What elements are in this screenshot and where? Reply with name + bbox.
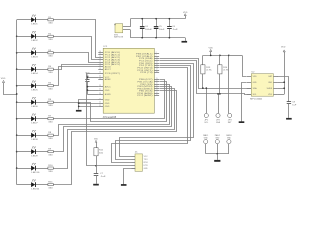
LED LED5 <box>31 83 35 88</box>
svg-text:R1: R1 <box>48 17 51 19</box>
svg-text:LED7: LED7 <box>31 122 38 124</box>
wire : spiral route J1 pin2 <box>116 66 191 160</box>
svg-text:22: 22 <box>99 105 101 107</box>
LED LED10 <box>31 166 35 171</box>
wire : bus to LED7 <box>17 118 32 120</box>
svg-text:GND: GND <box>105 103 110 105</box>
capacitor C4 100uF <box>142 19 144 27</box>
svg-text:R2: R2 <box>48 33 51 35</box>
wire : bus to LED8 <box>17 135 32 137</box>
svg-text:J1: J1 <box>135 151 138 153</box>
LED LED11 <box>31 182 35 187</box>
svg-text:12: 12 <box>156 66 158 68</box>
wire : VDD to bus <box>4 83 17 95</box>
resistor R10 <box>48 167 53 169</box>
ground (IC2 left) <box>239 121 245 123</box>
svg-text:23: 23 <box>99 93 101 95</box>
svg-text:LED4: LED4 <box>31 73 38 75</box>
LED LED2 <box>31 34 35 39</box>
svg-text:10k: 10k <box>99 152 103 154</box>
wire : IC1 GND pins bundle <box>79 100 99 110</box>
wire : bus to LED6 <box>17 102 32 104</box>
wire : JP1 lead to SCL <box>206 88 208 113</box>
wire : ground rail (bottom) <box>130 37 185 39</box>
capacitor C8 1uF <box>287 101 291 103</box>
resistor R11 <box>48 184 53 186</box>
LED LED3 <box>31 50 35 55</box>
wire : LED anode bus (VDD) <box>16 20 18 185</box>
svg-text:R9: R9 <box>48 149 51 151</box>
wire : LED7 to R7 <box>36 118 48 120</box>
svg-text:JP1: JP1 <box>204 120 208 122</box>
wire : PAD3 lead <box>228 144 230 154</box>
svg-text:JP3: JP3 <box>228 120 232 122</box>
wire : pullup/VDD rail <box>203 55 229 57</box>
svg-text:4.7k: 4.7k <box>223 70 229 72</box>
wire : LED8 net <box>54 85 170 136</box>
svg-text:AVCC: AVCC <box>105 85 112 88</box>
wire : LED1 to R1 <box>36 19 48 21</box>
wire : IC2 VDD pins tie <box>278 82 284 84</box>
capacitor C6 .1uF <box>169 19 171 27</box>
wire : LED6 to R6 <box>36 102 48 104</box>
svg-text:330: 330 <box>48 171 52 173</box>
svg-text:R6: R6 <box>48 99 51 101</box>
wire : PAD2 lead <box>217 144 219 154</box>
svg-text:BT1: BT1 <box>114 34 118 36</box>
IC1 right pin stubs and pin names <box>154 53 159 55</box>
wire : J1 GND pin to ground <box>124 169 136 185</box>
wire : VDD rail (top) <box>130 18 185 20</box>
LED LED1 <box>31 17 35 22</box>
svg-text:ADC7: ADC7 <box>105 68 111 71</box>
svg-text:12: 12 <box>156 85 158 87</box>
svg-text:LED5: LED5 <box>31 89 38 91</box>
svg-text:SCL: SCL <box>204 122 208 124</box>
svg-text:22: 22 <box>99 98 101 100</box>
wire : C7 to ground <box>96 175 98 184</box>
ground (battery rail) <box>182 41 188 43</box>
svg-text:12: 12 <box>156 87 158 89</box>
svg-text:330: 330 <box>48 89 52 91</box>
wire : spiral route J1 pin3 <box>112 68 188 163</box>
svg-text:11: 11 <box>156 62 158 64</box>
wire : LED3 net to IC1 <box>54 53 99 63</box>
svg-text:20: 20 <box>99 51 101 53</box>
wire : bus to LED5 <box>17 85 32 87</box>
connector J1 header <box>135 154 142 171</box>
svg-text:20: 20 <box>99 53 101 55</box>
svg-text:330: 330 <box>48 154 52 156</box>
svg-text:22: 22 <box>99 76 101 78</box>
svg-text:LED11: LED11 <box>31 188 40 190</box>
svg-text:C4: C4 <box>145 26 148 28</box>
LED LED6 <box>31 100 35 105</box>
jumper pad JP2 <box>216 113 220 117</box>
wire : rail to ground symbol <box>185 38 187 41</box>
svg-text:R4: R4 <box>48 66 51 68</box>
svg-text:INT: INT <box>228 122 232 124</box>
svg-text:U2: U2 <box>252 71 255 73</box>
svg-text:R13: R13 <box>206 67 210 69</box>
svg-text:R10: R10 <box>48 165 52 167</box>
svg-text:12: 12 <box>156 94 158 96</box>
wire : LED5 to R5 <box>36 85 48 87</box>
svg-text:22: 22 <box>99 102 101 104</box>
power symbol VDD (IC2) <box>284 52 286 94</box>
svg-text:R5: R5 <box>48 83 51 85</box>
wire : VDD to VCC pin <box>87 77 89 80</box>
wire : cap to AVCC/GND pins <box>87 81 89 94</box>
svg-text:23: 23 <box>99 66 101 68</box>
wire : VDD rail to IC2 SHDN <box>229 55 242 57</box>
svg-text:22: 22 <box>99 89 101 91</box>
wire : C8 to ground <box>288 104 290 118</box>
wire : SDA net from IC1 to IC2 <box>160 61 252 95</box>
svg-text:20: 20 <box>99 72 101 74</box>
wire : LED11 net <box>54 91 177 185</box>
wire : LED1 net to IC1 <box>54 20 99 58</box>
wire : bus to LED3 <box>17 52 32 54</box>
wire : LED4 to R4 <box>36 69 48 71</box>
wire : bus to LED10 <box>17 168 32 170</box>
wire : battery - to ground rail <box>123 29 131 31</box>
wire : LED2 to R2 <box>36 36 48 38</box>
resistor R5 <box>48 85 53 87</box>
svg-text:11: 11 <box>156 59 158 61</box>
wire : SCL net from IC1 to IC2 <box>160 59 252 89</box>
wire : VDD to R12 <box>96 142 98 148</box>
svg-text:AGND: AGND <box>105 93 112 96</box>
svg-text:VDD: VDD <box>1 78 6 80</box>
svg-text:10: 10 <box>156 83 158 85</box>
wire : IC2 GND pin to ground <box>242 83 247 122</box>
svg-text:SHDN: SHDN <box>267 88 273 90</box>
svg-text:330: 330 <box>48 23 52 25</box>
svg-text:GND: GND <box>105 100 110 102</box>
wire : LED10 to R10 <box>36 168 48 170</box>
svg-text:20: 20 <box>99 56 101 58</box>
wire : bus to LED4 <box>17 69 32 71</box>
resistor R7 <box>48 118 53 120</box>
svg-text:330: 330 <box>48 39 52 41</box>
svg-text:10uF: 10uF <box>159 29 164 31</box>
svg-text:.1uF: .1uF <box>172 29 177 31</box>
ground (reset cap) <box>93 184 99 186</box>
wire : LED2 net to IC1 <box>54 37 99 60</box>
power symbol VDD (battery rail) <box>185 16 187 19</box>
wire : LED8 to R8 <box>36 135 48 137</box>
wire : spiral route J1 pin1 <box>120 64 194 157</box>
svg-text:11: 11 <box>156 64 158 66</box>
wire : LED10 net <box>54 89 175 169</box>
svg-text:C6: C6 <box>172 26 175 28</box>
wire : pad bus <box>206 153 229 155</box>
svg-text:.1uF: .1uF <box>100 176 105 178</box>
svg-text:LED2: LED2 <box>31 40 38 42</box>
resistor R8 <box>48 134 53 136</box>
wire : LED4 net to IC1 <box>54 65 99 70</box>
wire : VDD rail to JP3 pad <box>228 56 230 114</box>
ground (C8) <box>286 118 292 120</box>
resistor R12 10k (reset pullup) <box>94 148 98 156</box>
svg-text:R7: R7 <box>48 116 51 118</box>
capacitor C2 (decoupling) <box>85 79 89 81</box>
svg-text:LED9: LED9 <box>31 155 38 157</box>
wire : PAD1 lead <box>205 144 207 154</box>
wire : LED5 net to IC1 <box>54 67 99 86</box>
LED LED7 <box>31 116 35 121</box>
svg-text:LED1: LED1 <box>31 24 38 26</box>
ground (IC1 GND pins) <box>76 110 82 112</box>
svg-text:20: 20 <box>99 63 101 65</box>
svg-text:PD4 (T0): PD4 (T0) <box>140 72 153 74</box>
svg-text:JP2: JP2 <box>216 120 220 122</box>
resistor R2 <box>48 35 53 37</box>
wire : battery + to rail <box>123 26 131 28</box>
capacitor C5 10uF <box>156 19 158 27</box>
wire : LED9 to R9 <box>36 151 48 153</box>
svg-text:PC6 (/RST): PC6 (/RST) <box>105 73 121 75</box>
svg-text:12: 12 <box>156 80 158 82</box>
resistor R1 <box>48 19 53 21</box>
svg-text:MPL115A1: MPL115A1 <box>250 98 262 101</box>
svg-text:23: 23 <box>99 85 101 87</box>
ground (pads) <box>214 160 220 162</box>
power symbol VDD (I2C pullups) <box>210 52 212 56</box>
IC1 left pin stubs and pin names <box>98 52 103 54</box>
svg-text:LED8: LED8 <box>31 139 38 141</box>
svg-text:R8: R8 <box>48 132 51 134</box>
svg-text:11: 11 <box>156 90 158 92</box>
LED LED8 <box>31 133 35 138</box>
svg-text:330: 330 <box>48 138 52 140</box>
wire : R12 to reset node and C7 <box>96 156 98 174</box>
svg-text:LED6: LED6 <box>31 106 38 108</box>
resistor R6 <box>48 101 53 103</box>
svg-text:12: 12 <box>156 92 158 94</box>
wire : LED6 net (row down and around) <box>54 82 167 122</box>
svg-text:R14: R14 <box>223 67 227 69</box>
op-amp U2 MPL115A1 body <box>251 74 273 97</box>
svg-text:GND: GND <box>105 90 110 92</box>
resistor R13 4.7k <box>202 55 204 64</box>
svg-text:330: 330 <box>48 105 52 107</box>
svg-text:330: 330 <box>48 187 52 189</box>
svg-text:PD7 (AIN1): PD7 (AIN1) <box>137 94 153 97</box>
svg-text:LED10: LED10 <box>31 172 40 174</box>
wire : LED7 net (row to IC1 PB pin) <box>54 80 165 119</box>
IC2 pins <box>247 76 252 78</box>
svg-text:R11: R11 <box>48 182 52 184</box>
svg-text:C5: C5 <box>159 26 162 28</box>
op-amp U IC1 ATmega168 body <box>103 48 154 113</box>
jumper pad JP3 <box>228 113 232 117</box>
svg-text:11: 11 <box>156 57 158 59</box>
svg-text:C8: C8 <box>292 102 295 104</box>
wire : R13 to SCL <box>202 74 204 88</box>
svg-text:R3: R3 <box>48 50 51 52</box>
wire : R14 to SDA <box>219 74 221 94</box>
wire : LED3 to R3 <box>36 52 48 54</box>
wire : pad bus to ground <box>217 154 219 160</box>
resistor R14 4.7k <box>219 55 221 64</box>
svg-text:1uF: 1uF <box>292 104 296 106</box>
wire : /RESET net from IC1 down to header <box>87 74 132 166</box>
svg-text:12: 12 <box>156 69 158 71</box>
resistor R4 <box>48 68 53 70</box>
svg-text:10: 10 <box>156 71 158 73</box>
svg-text:AREF: AREF <box>105 78 112 81</box>
svg-text:100uF: 100uF <box>145 29 152 31</box>
wire : IC2 CAP pin to C8 <box>278 77 289 102</box>
svg-text:330: 330 <box>48 56 52 58</box>
battery connector BT1 <box>115 24 123 33</box>
wire : JP2 lead to SDA <box>218 94 220 114</box>
wire : LED9 net <box>54 87 172 152</box>
wire : bus to LED1 <box>17 19 32 21</box>
svg-text:23: 23 <box>99 78 101 80</box>
svg-text:330: 330 <box>48 122 52 124</box>
svg-text:20: 20 <box>99 61 101 63</box>
resistor R9 <box>48 151 53 153</box>
ground (J1) <box>121 184 127 186</box>
resistor R3 <box>48 52 53 54</box>
wire : LED11 to R11 <box>36 184 48 186</box>
svg-text:11: 11 <box>156 78 158 80</box>
svg-text:20: 20 <box>99 58 101 60</box>
wire : bus to LED11 <box>17 184 32 186</box>
svg-text:330: 330 <box>48 72 52 74</box>
LED LED4 <box>31 67 35 72</box>
svg-text:C7: C7 <box>100 173 103 175</box>
svg-text:GND: GND <box>105 106 110 108</box>
jumper pad JP1 <box>204 113 208 117</box>
svg-text:4.7k: 4.7k <box>206 70 212 72</box>
svg-text:R12: R12 <box>99 150 103 152</box>
wire : bus to LED9 <box>17 151 32 153</box>
svg-text:SCL: SCL <box>253 94 257 96</box>
svg-text:LED3: LED3 <box>31 57 38 59</box>
LED LED9 <box>31 149 35 154</box>
svg-text:23: 23 <box>99 68 101 70</box>
wire : bus to LED2 <box>17 36 32 38</box>
capacitor C7 0.1uF (reset) <box>94 173 99 175</box>
